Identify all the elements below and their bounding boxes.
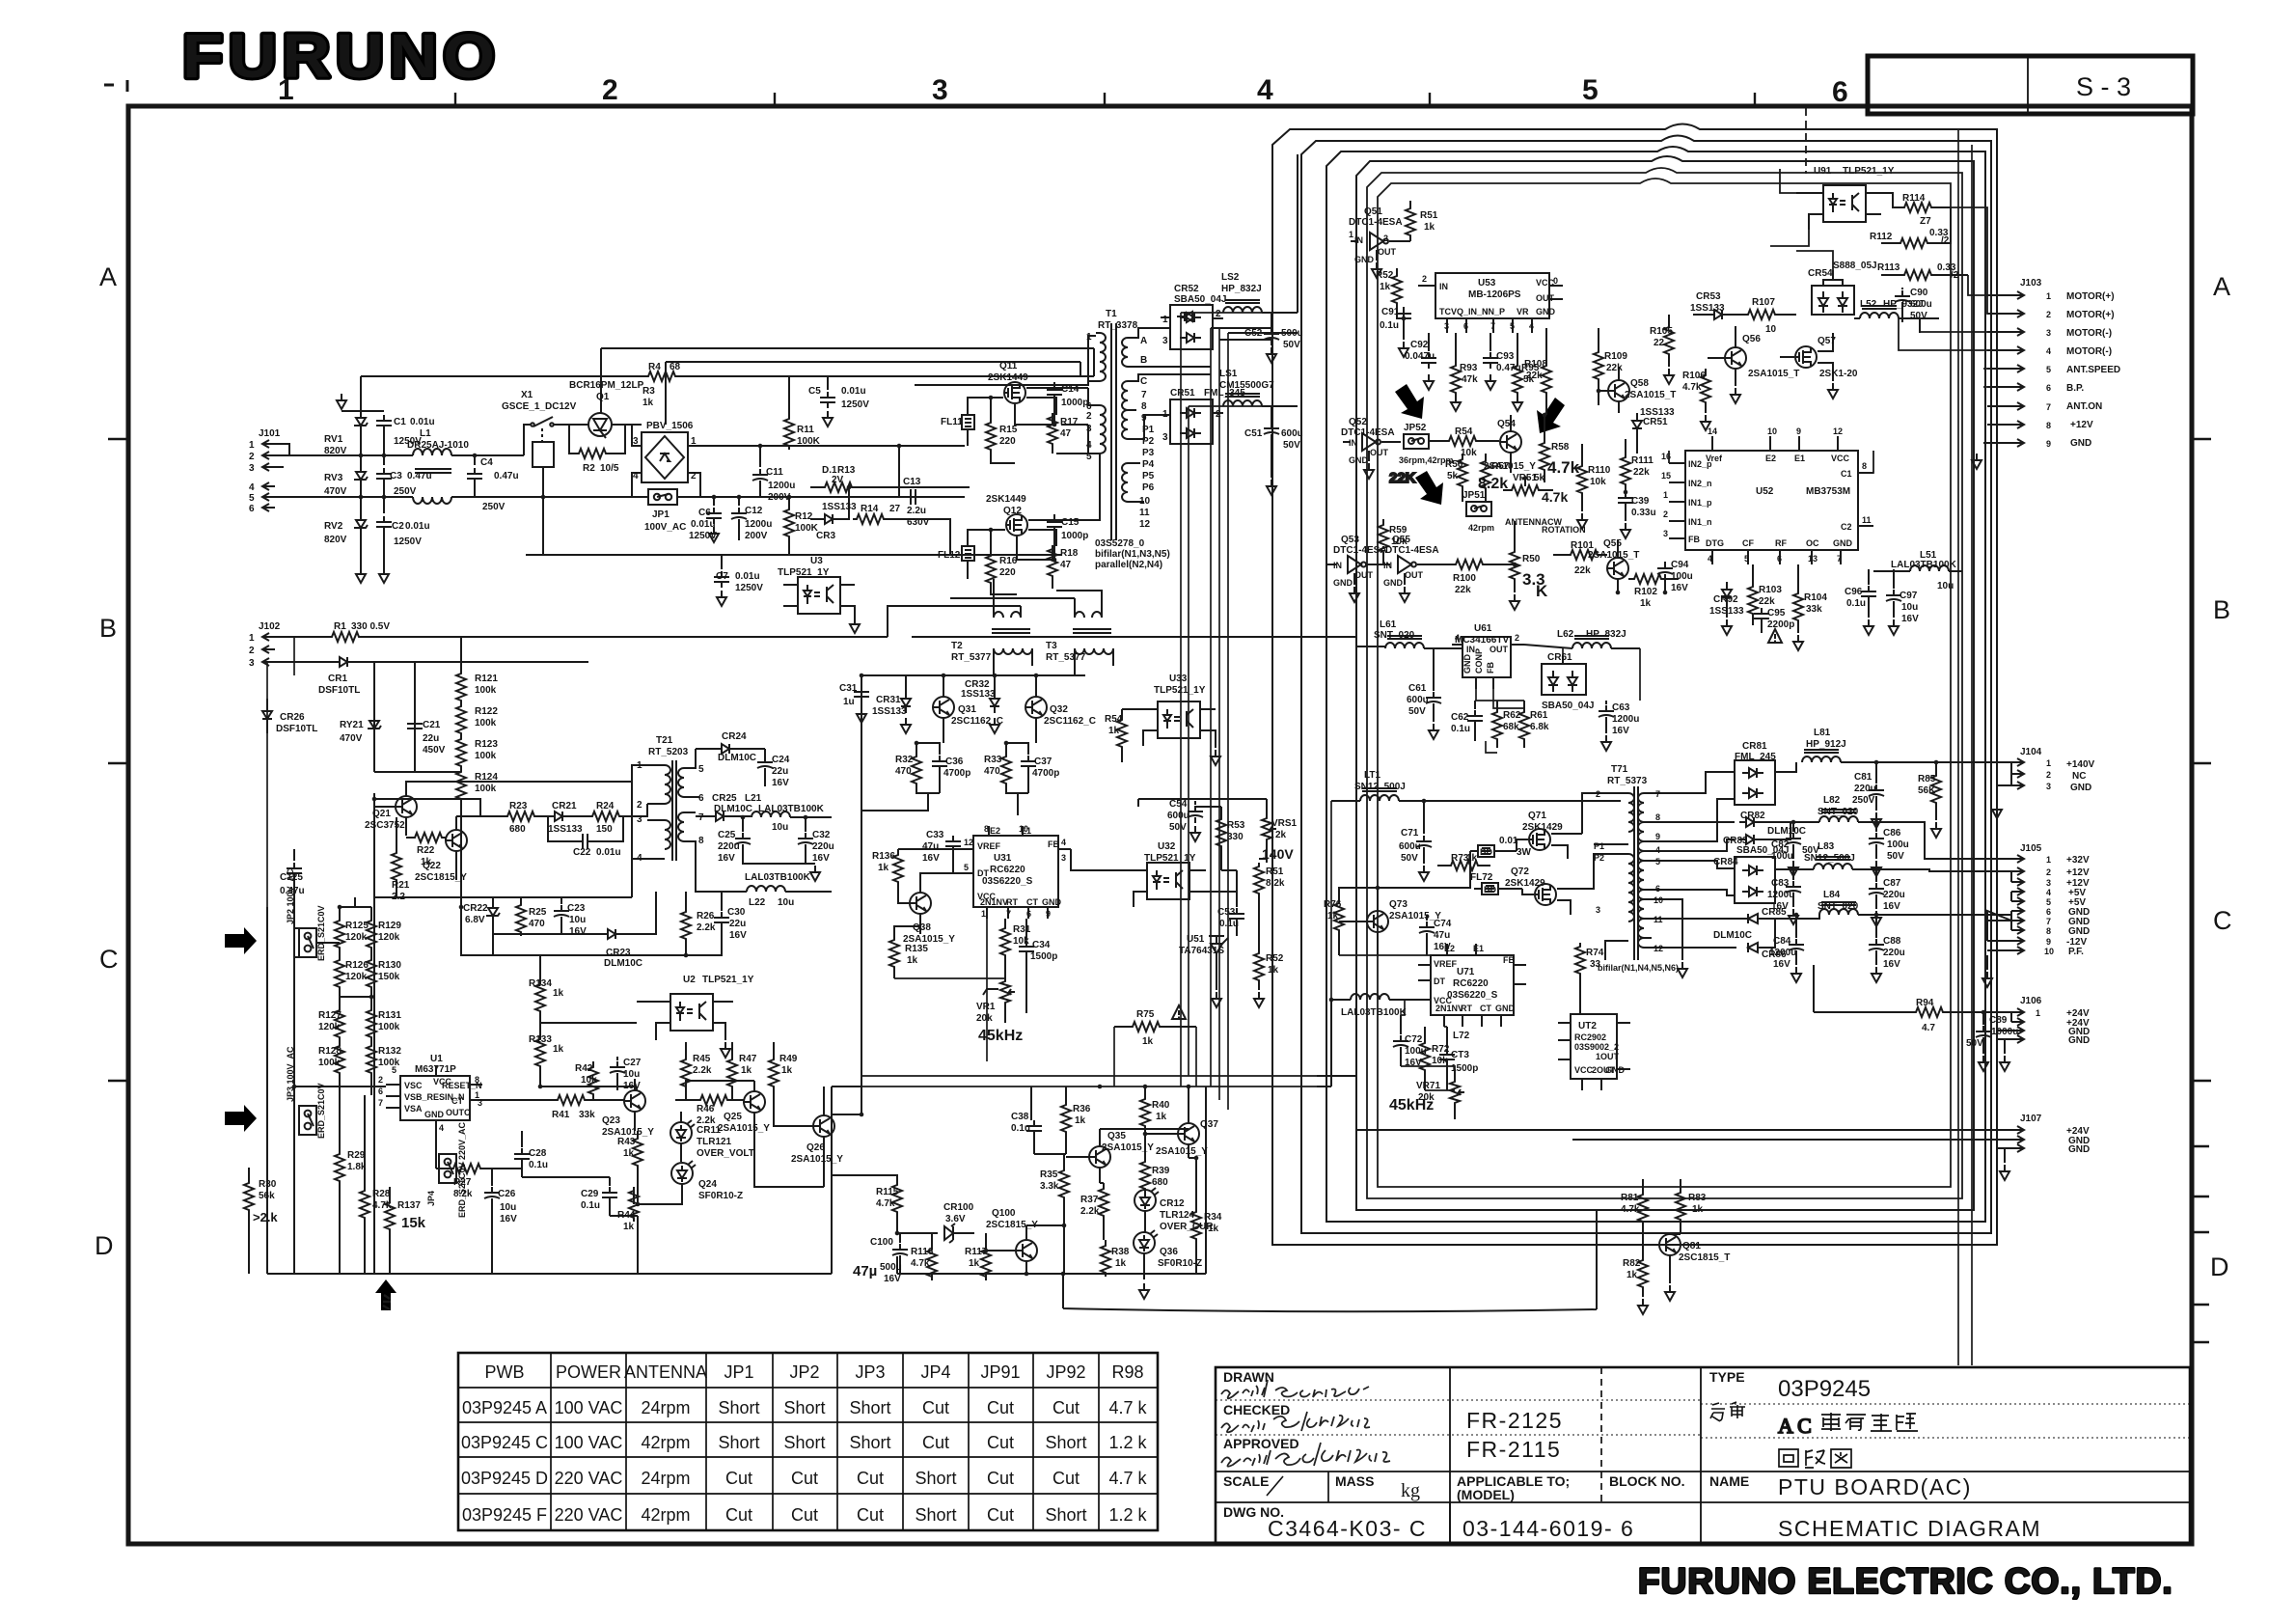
svg-text:ANTENNA: ANTENNA xyxy=(624,1362,707,1382)
capacitor C125 xyxy=(287,849,302,907)
svg-text:R29: R29 xyxy=(347,1150,366,1161)
svg-text:4: 4 xyxy=(2046,888,2051,897)
resistor R135 xyxy=(889,926,920,978)
svg-text:7: 7 xyxy=(1141,390,1147,400)
svg-text:C39: C39 xyxy=(1631,496,1650,507)
svg-text:+12V: +12V xyxy=(2066,867,2090,878)
jumper JP1 xyxy=(475,489,915,505)
svg-text:C38: C38 xyxy=(1011,1112,1029,1122)
svg-text:1: 1 xyxy=(1086,332,1092,343)
svg-text:MB3753M: MB3753M xyxy=(1806,486,1850,497)
svg-text:GND: GND xyxy=(2068,1035,2090,1046)
svg-text:16V: 16V xyxy=(623,1081,641,1091)
svg-text:5k: 5k xyxy=(1447,471,1459,481)
wire U61 net xyxy=(1356,637,1640,753)
capacitor C13 xyxy=(899,446,921,505)
svg-text:1: 1 xyxy=(2046,855,2051,865)
svg-text:Cut: Cut xyxy=(987,1398,1014,1417)
svg-text:220u: 220u xyxy=(1854,784,1876,794)
svg-text:ANT.ON: ANT.ON xyxy=(2066,401,2102,412)
svg-text:2SA1015_Y: 2SA1015_Y xyxy=(1156,1146,1208,1157)
svg-text:SBA50_04J: SBA50_04J xyxy=(1542,701,1594,711)
filter bead FL11 xyxy=(962,398,1003,446)
svg-text:9: 9 xyxy=(2046,937,2051,947)
resistor R21 xyxy=(392,817,401,897)
svg-text:B: B xyxy=(1140,355,1147,366)
svg-text:4.7k: 4.7k xyxy=(1542,489,1568,505)
svg-text:GND: GND xyxy=(2068,926,2090,937)
svg-text:8.2k: 8.2k xyxy=(1266,878,1285,889)
svg-text:100 VAC: 100 VAC xyxy=(555,1398,623,1417)
svg-text:JP1: JP1 xyxy=(652,509,670,520)
svg-text:4: 4 xyxy=(1086,440,1092,451)
inductor L22 xyxy=(696,859,832,892)
svg-text:2SA1015_Y: 2SA1015_Y xyxy=(718,1123,770,1134)
svg-text:>2.k: >2.k xyxy=(253,1210,278,1224)
svg-text:6: 6 xyxy=(698,793,704,804)
svg-text:1k: 1k xyxy=(553,1044,564,1055)
svg-text:100u: 100u xyxy=(1671,571,1693,582)
svg-text:10k: 10k xyxy=(1013,936,1029,947)
svg-text:CR92: CR92 xyxy=(1713,594,1738,605)
svg-text:5: 5 xyxy=(1086,452,1092,462)
svg-text:0.1u: 0.1u xyxy=(581,1200,600,1211)
pot VR51 xyxy=(1262,807,1276,859)
svg-text:L61: L61 xyxy=(1380,619,1397,630)
svg-text:FB: FB xyxy=(1048,839,1059,849)
svg-text:CONP: CONP xyxy=(1474,648,1484,674)
svg-text:DTG: DTG xyxy=(1706,538,1724,548)
svg-text:CR81: CR81 xyxy=(1742,741,1767,752)
resistor R117 xyxy=(981,1233,991,1280)
svg-text:12: 12 xyxy=(964,838,973,847)
node J101 connector xyxy=(262,440,289,511)
wire long verticals to titleblock xyxy=(1958,130,1972,1365)
svg-text:1SS133: 1SS133 xyxy=(1690,303,1725,314)
svg-text:3: 3 xyxy=(1086,424,1092,434)
svg-text:R121: R121 xyxy=(475,674,498,684)
resistor R4 xyxy=(633,371,679,381)
capacitor C21 xyxy=(407,662,423,772)
svg-text:470V: 470V xyxy=(340,733,363,744)
svg-text:VR71: VR71 xyxy=(1416,1081,1440,1091)
svg-text:A: A xyxy=(99,262,117,291)
resistor R75 + warning xyxy=(1114,1005,1196,1032)
svg-text:1: 1 xyxy=(1349,230,1353,239)
svg-text:3: 3 xyxy=(1596,905,1600,915)
svg-text:A: A xyxy=(2213,272,2230,301)
svg-text:1200u: 1200u xyxy=(1767,890,1794,900)
svg-text:Cut: Cut xyxy=(791,1505,818,1525)
svg-text:R31: R31 xyxy=(1013,924,1031,935)
svg-text:U3: U3 xyxy=(810,556,823,566)
node J103 xyxy=(1972,291,2024,469)
svg-text:SN12_500J: SN12_500J xyxy=(1354,782,1406,792)
diode CR1 xyxy=(275,657,588,667)
svg-text:10: 10 xyxy=(1654,895,1663,905)
LED Q24 xyxy=(638,1161,696,1204)
diode CR32 xyxy=(990,675,999,733)
resistor R32 + C36 xyxy=(861,743,947,811)
svg-text:1k: 1k xyxy=(1380,282,1391,292)
svg-text:C24: C24 xyxy=(772,755,790,765)
svg-text:2: 2 xyxy=(2046,310,2051,319)
capacitor C31 xyxy=(854,681,869,723)
resistor R28 xyxy=(360,1095,369,1274)
capacitor C6 xyxy=(706,497,722,542)
svg-text:C: C xyxy=(99,945,119,974)
svg-text:470: 470 xyxy=(895,766,912,777)
svg-text:P2: P2 xyxy=(1142,436,1155,447)
svg-text:DSF10TL: DSF10TL xyxy=(318,685,360,696)
svg-text:12: 12 xyxy=(1139,519,1151,530)
svg-text:VCC: VCC xyxy=(1434,996,1453,1005)
wire T71 secondary to rectifiers xyxy=(1582,772,1735,960)
wire nested loop 1 xyxy=(1272,124,1997,1246)
svg-text:RT_5377: RT_5377 xyxy=(951,652,992,663)
svg-text:3: 3 xyxy=(1444,321,1449,331)
capacitor C15 xyxy=(1047,514,1062,560)
svg-text:Short: Short xyxy=(783,1398,825,1417)
top border tick marks xyxy=(455,93,1755,106)
svg-text:Q12: Q12 xyxy=(1003,506,1022,516)
svg-text:1250V: 1250V xyxy=(735,583,763,593)
svg-text:1k: 1k xyxy=(1640,598,1652,609)
resistor R73 xyxy=(1437,861,1490,870)
inductor L71 xyxy=(1331,788,1621,801)
capacitor C5 xyxy=(820,376,835,426)
svg-text:8: 8 xyxy=(984,824,989,834)
svg-text:C86: C86 xyxy=(1883,828,1901,839)
svg-text:22k: 22k xyxy=(1606,363,1623,373)
shunt reg U51 xyxy=(1209,936,1228,1007)
svg-text:1200u: 1200u xyxy=(1612,714,1639,725)
svg-text:TLP521_1Y: TLP521_1Y xyxy=(1154,685,1206,696)
resistor R46 xyxy=(675,1095,743,1105)
svg-text:2.2u: 2.2u xyxy=(907,506,926,516)
svg-text:22u: 22u xyxy=(423,733,439,744)
diode CR53 xyxy=(1693,310,1744,319)
svg-text:R137: R137 xyxy=(397,1200,421,1211)
svg-text:GND: GND xyxy=(1462,654,1472,674)
svg-text:R41: R41 xyxy=(552,1110,570,1120)
svg-text:C71: C71 xyxy=(1401,828,1419,839)
opto U3 xyxy=(783,577,860,633)
svg-text:10: 10 xyxy=(1139,496,1151,507)
svg-text:ERD_S21C0V 220V_AC: ERD_S21C0V 220V_AC xyxy=(457,1121,467,1218)
svg-text:R27: R27 xyxy=(453,1177,472,1188)
svg-text:100K: 100K xyxy=(795,523,819,534)
svg-text:3: 3 xyxy=(932,74,948,106)
svg-text:22k: 22k xyxy=(1633,467,1650,478)
svg-text:11: 11 xyxy=(1862,515,1872,525)
capacitor C27 xyxy=(610,1057,625,1090)
svg-text:6.8k: 6.8k xyxy=(1530,722,1549,732)
resistor R53 xyxy=(1216,807,1226,870)
resistor R13 xyxy=(810,482,915,492)
svg-text:U1: U1 xyxy=(430,1054,443,1064)
svg-text:45kHz: 45kHz xyxy=(978,1028,1023,1044)
svg-text:C27: C27 xyxy=(623,1058,642,1068)
svg-text:OUT: OUT xyxy=(1370,448,1389,457)
ic U53 xyxy=(1418,273,1563,333)
svg-text:A: A xyxy=(1140,336,1147,346)
svg-text:CR31: CR31 xyxy=(876,695,901,705)
svg-text:R58: R58 xyxy=(1551,442,1570,453)
svg-text:8: 8 xyxy=(1862,461,1867,471)
transistor Q31 xyxy=(933,675,954,743)
inductor L52b xyxy=(1854,306,1939,333)
svg-text:R110: R110 xyxy=(1588,465,1611,476)
svg-text:CR11: CR11 xyxy=(697,1125,721,1136)
svg-text:R35: R35 xyxy=(1040,1169,1058,1180)
svg-text:CR61: CR61 xyxy=(1547,652,1572,663)
inductor L51 xyxy=(1223,394,1298,423)
svg-text:GND: GND xyxy=(2070,783,2091,793)
svg-text:1: 1 xyxy=(1162,315,1168,325)
svg-text:bifilar(N1,N3,N5): bifilar(N1,N3,N5) xyxy=(1095,549,1170,560)
svg-text:DLM10C: DLM10C xyxy=(1767,826,1806,837)
resistor R93 xyxy=(1451,333,1461,411)
transistor Q100 xyxy=(986,1225,1037,1274)
svg-text:R106: R106 xyxy=(1682,371,1706,381)
node J107 xyxy=(1997,1126,2024,1180)
svg-text:CT: CT xyxy=(1480,1004,1491,1013)
ic U31 PWM xyxy=(961,826,1071,919)
varistor RV2 xyxy=(354,497,368,567)
svg-text:1: 1 xyxy=(981,909,986,919)
resistor R33 + C37 xyxy=(1001,743,1036,815)
svg-text:6: 6 xyxy=(249,504,255,514)
svg-text:5: 5 xyxy=(1582,74,1599,106)
svg-text:R51: R51 xyxy=(1420,210,1438,221)
svg-text:2200p: 2200p xyxy=(1767,619,1794,630)
svg-text:A C: A C xyxy=(1778,1414,1812,1438)
svg-text:L72: L72 xyxy=(1453,1031,1470,1041)
svg-text:16V: 16V xyxy=(718,853,735,864)
svg-text:Cut: Cut xyxy=(922,1433,949,1452)
svg-text:+12V: +12V xyxy=(2070,420,2093,430)
svg-text:33k: 33k xyxy=(579,1110,595,1120)
svg-text:4: 4 xyxy=(633,471,639,481)
ground x2 xyxy=(356,567,366,583)
resistor R18 xyxy=(1048,545,1057,589)
svg-text:J103: J103 xyxy=(2020,278,2042,289)
svg-text:MB-1206PS: MB-1206PS xyxy=(1468,289,1521,300)
resistor R52c xyxy=(1392,268,1402,318)
svg-text:330 0.5V: 330 0.5V xyxy=(351,621,390,632)
svg-text:9: 9 xyxy=(1046,909,1051,919)
svg-text:1250V: 1250V xyxy=(689,531,717,541)
svg-text:DSF10TL: DSF10TL xyxy=(276,724,317,734)
wire xyxy=(396,897,686,955)
svg-text:IN: IN xyxy=(1333,561,1342,570)
resistor R58 xyxy=(1540,415,1549,482)
svg-text:GND: GND xyxy=(1833,538,1853,548)
svg-text:10u: 10u xyxy=(500,1202,516,1213)
svg-text:R37: R37 xyxy=(1080,1195,1099,1205)
diode CR86 xyxy=(1735,919,1775,952)
svg-text:R74: R74 xyxy=(1586,948,1604,958)
svg-text:2: 2 xyxy=(1596,789,1600,799)
svg-text:9: 9 xyxy=(2046,439,2051,449)
svg-text:10: 10 xyxy=(1019,824,1028,834)
svg-text:220 VAC: 220 VAC xyxy=(555,1469,623,1488)
svg-text:R25: R25 xyxy=(529,907,547,918)
svg-text:LS2: LS2 xyxy=(1221,272,1240,283)
svg-text:03P9245 D: 03P9245 D xyxy=(461,1469,548,1488)
svg-text:2: 2 xyxy=(2046,867,2051,877)
svg-text:100k: 100k xyxy=(475,751,497,761)
svg-text:C7: C7 xyxy=(716,571,728,582)
svg-text:VCC: VCC xyxy=(1831,454,1850,463)
svg-text:T71: T71 xyxy=(1611,764,1628,775)
svg-text:+140V: +140V xyxy=(2066,759,2095,770)
svg-text:16V: 16V xyxy=(1773,959,1790,970)
svg-text:Cut: Cut xyxy=(857,1505,884,1525)
svg-text:220: 220 xyxy=(999,436,1016,447)
svg-text:10: 10 xyxy=(1767,426,1777,436)
svg-text:R62: R62 xyxy=(1503,710,1521,721)
svg-text:470: 470 xyxy=(984,766,1000,777)
svg-text:600u: 600u xyxy=(1407,695,1429,705)
handwritten signatures xyxy=(1221,1380,1390,1467)
svg-text:GND: GND xyxy=(1495,1004,1516,1013)
svg-text:500u: 500u xyxy=(880,1262,902,1273)
resistor R83 xyxy=(1676,1179,1685,1234)
svg-text:R24: R24 xyxy=(596,801,615,811)
svg-text:1SS133: 1SS133 xyxy=(1709,606,1744,617)
svg-text:12: 12 xyxy=(1654,944,1663,953)
svg-text:1k: 1k xyxy=(1626,1270,1638,1280)
wire mid bus xyxy=(861,675,1085,1087)
resistor R31 xyxy=(1000,919,1010,978)
svg-text:L21: L21 xyxy=(745,793,762,804)
svg-text:120k: 120k xyxy=(345,932,368,943)
svg-text:R44: R44 xyxy=(617,1210,636,1221)
svg-text:PWB: PWB xyxy=(484,1362,524,1382)
svg-text:J101: J101 xyxy=(259,428,281,439)
svg-text:J107: J107 xyxy=(2020,1114,2042,1124)
svg-text:220u: 220u xyxy=(718,841,740,852)
svg-text:3: 3 xyxy=(2046,328,2051,338)
wire nested loop 4 xyxy=(1356,156,1974,1210)
svg-text:68: 68 xyxy=(670,362,681,372)
svg-text:VCC: VCC xyxy=(1574,1065,1594,1075)
inductor L72 xyxy=(1331,994,1405,1000)
svg-text:Short: Short xyxy=(783,1433,825,1452)
LED Q36 xyxy=(1134,1230,1158,1299)
svg-text:RC2902: RC2902 xyxy=(1574,1032,1606,1042)
transformer T1 xyxy=(1056,323,1170,540)
svg-text:C84: C84 xyxy=(1773,936,1791,947)
varistor RV1 xyxy=(354,411,368,455)
varistor RY21 xyxy=(368,662,381,772)
svg-text:D: D xyxy=(2210,1252,2229,1281)
svg-text:3: 3 xyxy=(637,814,642,825)
svg-text:20k: 20k xyxy=(976,1013,993,1024)
big arrow SE xyxy=(1395,384,1424,419)
resistor R134 xyxy=(535,965,545,1023)
svg-text:JP3 100V_AC: JP3 100V_AC xyxy=(286,1046,295,1102)
resistor R50c 3.3K xyxy=(1510,521,1519,610)
svg-text:M63771P: M63771P xyxy=(415,1064,456,1075)
svg-text:IN: IN xyxy=(1439,282,1448,291)
transistor Q58 xyxy=(1599,367,1629,413)
svg-text:Q36: Q36 xyxy=(1160,1247,1178,1257)
svg-text:/2: /2 xyxy=(1951,270,1959,281)
svg-text:RC6220: RC6220 xyxy=(990,865,1025,875)
svg-text:5: 5 xyxy=(964,863,969,872)
svg-text:JP52: JP52 xyxy=(1404,423,1427,433)
diode CR3 xyxy=(810,487,849,524)
LED CR12 xyxy=(1134,1188,1159,1232)
svg-text:1200u: 1200u xyxy=(1769,948,1796,958)
svg-text:Q37: Q37 xyxy=(1200,1119,1218,1130)
svg-text:100k: 100k xyxy=(475,784,497,794)
inductor L51b xyxy=(1873,565,1962,571)
svg-text:TLR121: TLR121 xyxy=(697,1137,732,1147)
transformer T71 xyxy=(1605,786,1687,977)
svg-text:C14: C14 xyxy=(1061,384,1080,395)
svg-text:47µ: 47µ xyxy=(853,1263,877,1279)
svg-text:16V: 16V xyxy=(1883,901,1900,912)
transistor Q25 xyxy=(744,1081,765,1134)
svg-text:56K: 56K xyxy=(1918,785,1936,796)
svg-text:SNT_020: SNT_020 xyxy=(1374,630,1415,641)
svg-text:42rpm: 42rpm xyxy=(641,1505,690,1525)
svg-text:2V: 2V xyxy=(832,475,844,485)
svg-text:7: 7 xyxy=(378,1098,383,1108)
capacitor C90 xyxy=(1895,288,1910,322)
jumper JP4 xyxy=(439,1154,456,1183)
svg-text:200V: 200V xyxy=(745,531,768,541)
capacitor C96 xyxy=(1861,569,1876,635)
svg-text:3: 3 xyxy=(1162,432,1168,443)
svg-text:4.7k: 4.7k xyxy=(1621,1204,1640,1215)
resistor R133 xyxy=(535,1023,545,1087)
svg-text:470V: 470V xyxy=(324,486,347,497)
svg-text:Short: Short xyxy=(849,1398,890,1417)
svg-text:4: 4 xyxy=(1455,633,1460,643)
svg-text:16V: 16V xyxy=(1671,583,1688,593)
inductor L82 xyxy=(1819,810,2011,859)
capacitor C95 xyxy=(1754,608,1782,643)
rectifier CR84 xyxy=(1735,857,1814,903)
svg-text:J102: J102 xyxy=(259,621,281,632)
svg-text:C: C xyxy=(2213,906,2232,935)
svg-text:CHECKED: CHECKED xyxy=(1223,1402,1290,1417)
svg-text:R108: R108 xyxy=(1524,359,1547,370)
resistor R29 xyxy=(335,1148,344,1197)
svg-text:100k: 100k xyxy=(378,1058,400,1068)
svg-text:P5: P5 xyxy=(1142,471,1155,481)
transistor Q22 xyxy=(446,816,467,880)
svg-text:R1: R1 xyxy=(334,621,346,632)
inductor L1 common-mode choke xyxy=(413,449,475,504)
svg-text:MOTOR(-): MOTOR(-) xyxy=(2066,328,2112,339)
svg-text:VSA: VSA xyxy=(404,1104,423,1114)
svg-text:C51: C51 xyxy=(1244,428,1263,439)
capacitor C94 xyxy=(1657,562,1673,592)
svg-text:5: 5 xyxy=(2046,365,2051,374)
svg-text:J106: J106 xyxy=(2020,996,2042,1006)
svg-text:1k: 1k xyxy=(623,1222,635,1232)
svg-text:22u: 22u xyxy=(729,919,746,929)
svg-text:R103: R103 xyxy=(1759,585,1782,595)
svg-text:1k: 1k xyxy=(1424,222,1435,233)
svg-text:03S5278_0: 03S5278_0 xyxy=(1095,538,1145,549)
